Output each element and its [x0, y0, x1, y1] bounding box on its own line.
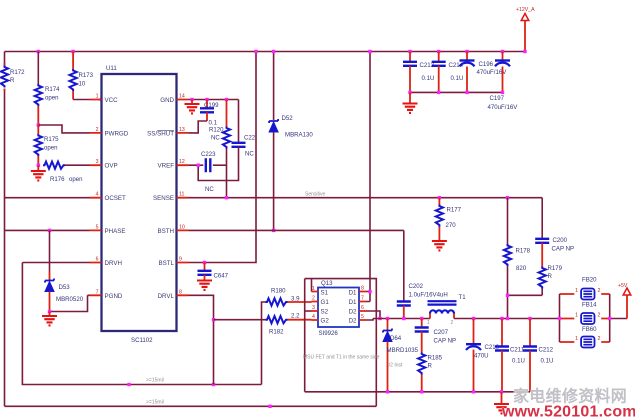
wire VCC — [73, 99, 89, 101]
capacitor C200 CAP NP — [535, 198, 574, 267]
svg-text:7: 7 — [361, 296, 364, 302]
wire cap bank bottom — [410, 91, 503, 93]
svg-text:PHASE: PHASE — [105, 228, 126, 235]
transistor Q13 SI9926 — [318, 280, 359, 337]
wire SENSE — [189, 197, 543, 199]
junction D1 — [368, 290, 371, 293]
svg-text:R: R — [428, 363, 433, 370]
svg-text:R185: R185 — [428, 355, 443, 362]
wire OCSET — [5, 197, 90, 199]
svg-text:1: 1 — [96, 94, 99, 100]
ground pin14 — [185, 100, 200, 114]
svg-text:C212: C212 — [539, 347, 554, 354]
junction bus x410 — [408, 50, 411, 53]
junction bus R185 — [420, 390, 423, 393]
svg-text:MBRD1035: MBRD1035 — [387, 347, 419, 354]
resistor R180 3.9 — [262, 288, 312, 385]
wire PWRGD — [38, 125, 89, 133]
svg-text:FB14: FB14 — [582, 302, 597, 309]
svg-text:8: 8 — [361, 286, 364, 292]
svg-text:5: 5 — [361, 314, 364, 320]
resistor R174 — [35, 52, 60, 126]
svg-text:6: 6 — [96, 257, 99, 263]
junction bus x467 — [465, 50, 468, 53]
svg-text:1: 1 — [575, 313, 578, 319]
svg-text:4: 4 — [312, 314, 315, 320]
junction rail C202 — [402, 317, 405, 320]
svg-text:BSTH: BSTH — [157, 228, 174, 235]
junction R178 R179 bottom — [506, 294, 509, 297]
svg-text:R175: R175 — [44, 136, 59, 143]
junction PWRGD node — [37, 123, 40, 126]
svg-text:C200: C200 — [553, 237, 568, 244]
resistor R175 — [35, 125, 59, 165]
resistor R173 — [70, 52, 94, 100]
wire S1 to switch node — [311, 279, 313, 292]
svg-text:12: 12 — [179, 159, 185, 165]
junction rail sense leg — [506, 317, 509, 320]
wire PGND — [50, 295, 90, 311]
wire S2 to left edge — [305, 310, 312, 312]
junction top bus x73 — [71, 50, 74, 53]
resistor R182 2.2 — [214, 313, 312, 336]
svg-text:C199: C199 — [204, 102, 219, 109]
svg-text:BSTL: BSTL — [159, 260, 175, 267]
svg-text:R120: R120 — [209, 127, 224, 134]
svg-text:3: 3 — [96, 159, 99, 165]
junction SENSE x226 — [225, 196, 228, 199]
junction rail C211 — [500, 317, 503, 320]
resistor R179 R — [508, 265, 563, 319]
wire BSTH — [189, 229, 404, 231]
svg-text:R172: R172 — [10, 69, 25, 76]
ground PGND — [42, 312, 57, 326]
svg-text:www.520101.com: www.520101.com — [501, 404, 635, 418]
wire FB left bus — [559, 294, 561, 342]
svg-text:R182: R182 — [269, 329, 284, 336]
svg-text:Sensitive: Sensitive — [305, 192, 326, 198]
junction bus x438 — [437, 50, 440, 53]
svg-text:VCC: VCC — [105, 97, 119, 104]
svg-text:3.9: 3.9 — [291, 296, 300, 303]
wire top +12V bus — [5, 51, 526, 53]
svg-text:open: open — [45, 95, 59, 102]
svg-text:R179: R179 — [548, 265, 563, 272]
svg-text:0.1: 0.1 — [209, 120, 218, 127]
junction OVP node — [37, 164, 40, 167]
svg-text:DRVH: DRVH — [105, 260, 122, 267]
wire D2 to rail — [367, 311, 381, 320]
capacitor C647 — [197, 263, 229, 290]
svg-text:CAP NP: CAP NP — [434, 338, 457, 345]
wire left rail — [4, 52, 6, 407]
svg-text:FB20: FB20 — [582, 277, 597, 284]
svg-text:MBR0520: MBR0520 — [56, 296, 84, 303]
svg-text:G1: G1 — [321, 299, 330, 306]
capacitor C210 470U — [466, 319, 500, 392]
wire ground bus — [305, 391, 530, 393]
svg-text:8: 8 — [179, 289, 182, 295]
ferrite bead FB60 — [560, 326, 610, 348]
wire output rail — [373, 318, 627, 320]
junction wire1 x129 — [127, 383, 130, 386]
svg-text:+12V_A: +12V_A — [516, 7, 535, 13]
capacitor C213 0.1U — [403, 52, 435, 93]
svg-text:T1: T1 — [459, 294, 467, 301]
junction VREF loop — [197, 164, 200, 167]
svg-text:MBRA130: MBRA130 — [285, 132, 313, 139]
svg-text:S2: S2 — [321, 309, 329, 316]
svg-text:D1: D1 — [349, 290, 357, 297]
svg-text:SI9926: SI9926 — [319, 330, 339, 337]
diode D64 MBRD1035 — [383, 319, 419, 392]
svg-text:C196: C196 — [479, 61, 494, 68]
svg-text:C22: C22 — [244, 135, 256, 142]
svg-text:R: R — [548, 273, 553, 280]
ground output bus — [494, 392, 509, 414]
svg-text:PGND: PGND — [105, 293, 123, 300]
op-amp U11 SC1102 — [102, 65, 177, 344]
resistor R178 820 — [504, 198, 531, 296]
svg-text:1: 1 — [312, 286, 315, 292]
svg-text:11: 11 — [179, 192, 184, 198]
svg-text:C202: C202 — [409, 283, 424, 290]
capacitor C214 0.1U — [432, 52, 464, 93]
svg-text:820: 820 — [516, 265, 527, 272]
junction bus gnd — [500, 390, 503, 393]
svg-text:C197: C197 — [490, 95, 505, 102]
junction D52 top bus — [272, 50, 275, 53]
wire DRVL to R182 — [189, 295, 214, 384]
svg-text:VREF: VREF — [157, 163, 174, 170]
svg-text:D52: D52 — [282, 115, 294, 122]
svg-text:SC1102: SC1102 — [131, 337, 153, 344]
svg-text:R173: R173 — [79, 72, 94, 79]
svg-text:R174: R174 — [45, 86, 60, 93]
junction R120 top — [225, 98, 228, 101]
junction VCC pin — [100, 98, 103, 101]
junction rail C210 — [472, 317, 475, 320]
svg-text:2: 2 — [598, 313, 601, 319]
svg-text:R176: R176 — [50, 176, 65, 183]
svg-text:2: 2 — [451, 320, 454, 326]
svg-text:U11: U11 — [106, 65, 117, 72]
capacitor C22 NC — [198, 100, 256, 181]
svg-text:SENSE: SENSE — [153, 195, 174, 202]
U11 right pin stubs 8-14 — [177, 94, 189, 296]
diode D52 MBRA130 — [269, 52, 313, 231]
power +12V_A — [516, 7, 535, 53]
svg-text:D64: D64 — [390, 335, 402, 342]
svg-text:OVP: OVP — [105, 163, 118, 170]
svg-text:2: 2 — [598, 288, 601, 294]
svg-text:0.1U: 0.1U — [422, 75, 435, 82]
svg-text:R: R — [10, 77, 15, 84]
wire PHASE — [5, 229, 90, 231]
svg-text:1: 1 — [575, 336, 578, 342]
svg-text:S1: S1 — [321, 290, 329, 297]
svg-text:7: 7 — [96, 289, 99, 295]
svg-text:GND: GND — [160, 97, 174, 104]
ferrite bead FB14 — [560, 302, 610, 325]
diode D53 MBR0520 — [45, 230, 84, 311]
svg-text:4: 4 — [96, 192, 99, 198]
svg-text:14: 14 — [179, 94, 185, 100]
junction top bus x38 — [37, 50, 40, 53]
svg-text:1.0uF/16V4uH: 1.0uF/16V4uH — [409, 292, 448, 299]
svg-text:>=15mil: >=15mil — [146, 400, 164, 406]
svg-text:0.1U: 0.1U — [541, 358, 554, 365]
junction bus x502 — [501, 50, 504, 53]
svg-text:1: 1 — [427, 320, 430, 326]
capacitor C197 470uF/16V — [488, 52, 519, 112]
svg-text:0.1U: 0.1U — [451, 75, 464, 82]
resistor R177 270 — [432, 196, 462, 250]
svg-text:2.2: 2.2 — [291, 313, 300, 320]
svg-text:PWRGD: PWRGD — [105, 130, 129, 137]
svg-text:D2: D2 — [349, 318, 357, 325]
capacitor C207 CAP NP — [415, 319, 456, 353]
svg-text:2: 2 — [598, 336, 601, 342]
junction top bus x370 — [368, 50, 371, 53]
svg-text:NC: NC — [205, 186, 214, 193]
svg-text:1/2 Inst: 1/2 Inst — [386, 363, 403, 369]
Q13 right pin stubs — [359, 286, 367, 321]
svg-text:MSU FET and T1 in the same sid: MSU FET and T1 in the same side — [303, 355, 380, 361]
svg-text:G2: G2 — [321, 318, 330, 325]
resistor R172 — [1, 63, 25, 91]
junction wire1 x214 — [212, 383, 215, 386]
svg-text:C211: C211 — [510, 347, 525, 354]
ground cap bank — [403, 92, 418, 113]
capacitor C212 0.1U — [523, 319, 554, 392]
svg-text:1: 1 — [575, 288, 578, 294]
svg-text:270: 270 — [446, 222, 457, 229]
junction bank bottoms — [408, 91, 504, 94]
svg-text:6: 6 — [361, 305, 364, 311]
junction C647 tap — [203, 261, 206, 264]
junction rail C207 — [420, 317, 423, 320]
wire bottom loop2 — [5, 405, 377, 407]
svg-text:D1: D1 — [349, 299, 357, 306]
svg-text:R178: R178 — [516, 248, 531, 255]
junction PHASE-D53 — [48, 229, 51, 232]
svg-text:470U: 470U — [474, 353, 489, 360]
resistor R120 NC — [209, 100, 230, 198]
svg-text:9: 9 — [179, 257, 182, 263]
note box MSU FET — [303, 279, 403, 407]
wire DRVH loop — [22, 263, 261, 385]
svg-text:>=15mil: >=15mil — [146, 378, 164, 384]
junction bus C210 — [472, 390, 475, 393]
junction C199 top — [205, 98, 208, 101]
U11 left pin stubs 1-7 — [90, 94, 102, 296]
capacitor C196 470uF/16V — [460, 52, 508, 93]
svg-text:5: 5 — [96, 224, 99, 230]
svg-text:2: 2 — [312, 296, 315, 302]
junction wire2 — [268, 405, 271, 408]
junction rail C212 — [528, 317, 531, 320]
capacitor C223 NC — [189, 151, 227, 193]
svg-text:470uF/16V: 470uF/16V — [488, 104, 519, 111]
junction DRVL-R182 — [212, 318, 215, 321]
junction FB right — [608, 317, 611, 320]
svg-text:CAP NP: CAP NP — [552, 246, 575, 253]
svg-text:C223: C223 — [201, 151, 216, 158]
junction gnd sym — [190, 98, 193, 101]
svg-text:10: 10 — [179, 224, 185, 230]
svg-text:Q13: Q13 — [321, 280, 333, 287]
svg-text:C207: C207 — [434, 329, 449, 336]
svg-text:13: 13 — [179, 127, 185, 133]
junction D52 BSTH — [272, 229, 275, 232]
svg-text:D53: D53 — [59, 284, 71, 291]
svg-text:2: 2 — [96, 127, 99, 133]
svg-text:3: 3 — [312, 305, 315, 311]
wire +12V feed to Q13 drains — [367, 52, 371, 302]
wire SS/SHUT to C199 — [189, 121, 208, 133]
junction SENSE R178 — [506, 196, 509, 199]
svg-text:10: 10 — [79, 81, 86, 88]
Q13 left pin stubs — [312, 286, 319, 320]
capacitor C199 0.1 — [200, 100, 219, 127]
svg-text:NC: NC — [245, 151, 254, 158]
junction bus D64 — [386, 390, 389, 393]
resistor R176 — [43, 162, 90, 183]
svg-text:D2: D2 — [349, 309, 357, 316]
svg-text:SS/SHUT: SS/SHUT — [147, 130, 174, 137]
capacitor C202 — [397, 230, 448, 318]
resistor R185 R — [418, 353, 443, 392]
svg-text:R180: R180 — [271, 288, 286, 295]
junction rail D64 — [386, 317, 389, 320]
wire BSTL to top bus — [189, 52, 257, 263]
svg-text:open: open — [44, 145, 58, 152]
svg-text:DRVL: DRVL — [158, 293, 175, 300]
svg-text:R177: R177 — [447, 207, 462, 214]
inductor T1 — [427, 294, 466, 326]
svg-text:0.1U: 0.1U — [512, 358, 525, 365]
svg-text:C647: C647 — [214, 273, 229, 280]
ferrite bead FB20 — [560, 277, 610, 300]
junction D2 rail — [378, 317, 381, 320]
junction PGND node — [48, 310, 51, 313]
ground below R175 — [31, 165, 46, 180]
junction FB left — [558, 317, 561, 320]
junction BSTL top bus — [254, 50, 257, 53]
svg-text:FB60: FB60 — [582, 326, 597, 333]
svg-text:NC: NC — [211, 135, 220, 142]
wire GND pin14 net — [189, 99, 239, 101]
svg-text:open: open — [69, 176, 83, 183]
power +5V — [618, 283, 631, 319]
wire FB right bus — [609, 294, 611, 342]
capacitor C211 0.1U — [495, 319, 525, 392]
svg-text:OCSET: OCSET — [105, 195, 127, 202]
